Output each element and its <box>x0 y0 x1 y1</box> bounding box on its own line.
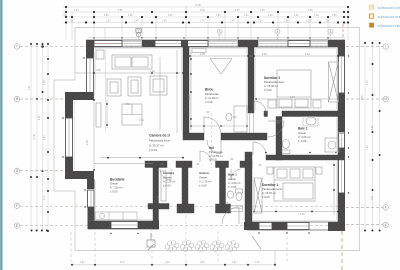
svg-text:2.10: 2.10 <box>44 195 46 200</box>
radiator birou <box>192 49 206 53</box>
svg-text:10.40: 10.40 <box>34 134 36 140</box>
svg-text:1.20: 1.20 <box>150 70 155 73</box>
svg-text:1.10: 1.10 <box>306 21 311 23</box>
label dormitor2 <box>264 76 285 92</box>
wall top outline <box>86 40 345 47</box>
baie1 sink <box>227 191 233 198</box>
svg-text:E: E <box>16 224 18 228</box>
armchairs living <box>107 79 121 96</box>
baie2 shower <box>325 138 339 152</box>
pier <box>238 40 258 47</box>
svg-text:± 0.00: ± 0.00 <box>205 100 213 104</box>
svg-text:3.40: 3.40 <box>29 85 31 90</box>
exterior wall: bottom band <box>88 221 345 231</box>
living room vertical line <box>105 50 107 133</box>
svg-text:1.45: 1.45 <box>134 21 139 23</box>
door birou <box>204 117 221 133</box>
svg-text:3: 3 <box>219 30 221 34</box>
door dormitor1 <box>253 142 266 155</box>
right dimension chains <box>365 42 380 231</box>
interior walls <box>145 47 344 229</box>
window bottom W7 <box>111 222 138 229</box>
svg-text:2.20: 2.20 <box>86 140 89 145</box>
svg-text:Baie 2: Baie 2 <box>298 127 308 131</box>
svg-text:F: F <box>16 204 18 208</box>
svg-text:Gresie: Gresie <box>163 175 171 179</box>
bottom dashed grid verticals <box>71 210 287 262</box>
svg-text:4.05: 4.05 <box>308 10 313 12</box>
birou left dim line <box>190 52 192 130</box>
door dormitor2 <box>254 101 266 113</box>
svg-text:2.70: 2.70 <box>255 262 260 264</box>
svg-text:2.80: 2.80 <box>262 53 267 56</box>
svg-text:± 0.00: ± 0.00 <box>209 158 217 162</box>
svg-text:2: 2 <box>138 30 140 34</box>
label camara <box>163 171 176 187</box>
svg-text:1.05: 1.05 <box>128 15 133 17</box>
svg-text:Pardoseala: Pardoseala <box>209 150 223 154</box>
window left W6 <box>88 190 95 207</box>
svg-text:A: 10.55 m²: A: 10.55 m² <box>209 154 223 158</box>
svg-text:SUPRAFATA TERASE: SUPRAFATA TERASE <box>378 24 400 28</box>
exterior wall: top band <box>86 37 345 47</box>
svg-text:Gresie: Gresie <box>298 131 306 135</box>
upper left pier <box>86 40 94 58</box>
door antreu/hall <box>200 151 211 162</box>
wall camara/antreu vertical <box>182 167 188 204</box>
svg-text:Camara: Camara <box>163 171 174 175</box>
svg-text:± 0.00: ± 0.00 <box>163 183 171 187</box>
svg-text:3.85: 3.85 <box>118 10 123 12</box>
door kitchen <box>160 169 171 180</box>
wall hall bottom horizontal left segment <box>183 133 204 140</box>
bushes at bottom <box>165 241 239 252</box>
svg-text:1.05: 1.05 <box>332 15 337 17</box>
secondary glazing segments <box>123 41 328 46</box>
hall top dim row <box>191 125 247 127</box>
wall birou/dormitor2 vertical <box>248 47 254 113</box>
window top W2 <box>155 41 208 47</box>
svg-text:E: E <box>385 223 387 227</box>
left axis bubbles with dashed leaders <box>20 47 345 226</box>
baie2 toilet <box>282 150 290 154</box>
svg-text:3.10: 3.10 <box>188 95 191 100</box>
svg-text:1.35: 1.35 <box>284 21 289 23</box>
svg-text:F: F <box>385 206 387 210</box>
mullion / interior wall joint <box>181 40 188 47</box>
left jut top wall <box>65 92 94 100</box>
svg-text:Bucatarie: Bucatarie <box>110 177 125 181</box>
svg-text:Baie 1: Baie 1 <box>228 173 237 177</box>
coffee table living <box>122 104 142 125</box>
svg-text:A: 7.50 m²: A: 7.50 m² <box>110 186 123 190</box>
wardrobe dormitor1 <box>254 178 262 213</box>
svg-text:1.45: 1.45 <box>230 21 235 23</box>
TV cabinet left wall <box>96 103 101 127</box>
wall baie1/dormitor1 vertical <box>245 152 252 225</box>
svg-text:4.20: 4.20 <box>290 96 295 99</box>
svg-text:1.20: 1.20 <box>305 53 310 56</box>
wall baie2 left vertical <box>276 117 282 161</box>
svg-text:1.50: 1.50 <box>125 103 130 106</box>
eave / roof overhang outline <box>54 28 360 266</box>
svg-text:± 0.00: ± 0.00 <box>264 88 272 92</box>
window left W5 <box>66 118 73 157</box>
svg-text:Pardoseala lemn: Pardoseala lemn <box>149 139 170 143</box>
wall hall-left vertical <box>183 47 189 134</box>
svg-text:3.40: 3.40 <box>44 135 46 140</box>
pier top-left corner <box>86 40 94 47</box>
label baie2 <box>298 127 311 143</box>
svg-text:I: I <box>385 45 386 49</box>
svg-text:± 0.00: ± 0.00 <box>199 183 207 187</box>
legend row 2 <box>370 14 374 18</box>
baie1 porch window <box>231 206 243 212</box>
svg-text:4.90: 4.90 <box>39 115 41 120</box>
camara shelves <box>161 171 166 201</box>
svg-text:A: 4.06 m²: A: 4.06 m² <box>298 135 311 139</box>
hall dashed axis <box>211 113 213 168</box>
svg-text:± 0.00: ± 0.00 <box>262 195 270 199</box>
entry door arc <box>222 207 239 224</box>
hall south wall cap over kitchen wall <box>145 161 167 168</box>
baie2 sink <box>303 117 318 127</box>
svg-text:A: 35.37 m²: A: 35.37 m² <box>149 143 164 147</box>
window right W11 <box>339 157 345 193</box>
window left W4 <box>87 58 94 93</box>
window right W10 <box>339 133 345 148</box>
svg-text:1.20: 1.20 <box>74 10 79 12</box>
svg-text:A: 2.25 m²: A: 2.25 m² <box>163 179 176 183</box>
window jamb tick dots <box>62 55 349 234</box>
svg-text:4.45: 4.45 <box>372 125 374 130</box>
svg-text:1.90: 1.90 <box>106 21 111 23</box>
top chain numbers <box>63 5 337 23</box>
right axis bubbles <box>346 47 383 225</box>
svg-text:1.60: 1.60 <box>268 15 273 17</box>
door camera de zi (hall wall) <box>207 140 221 154</box>
exterior wall: left side <box>65 40 95 229</box>
pier <box>142 40 155 47</box>
pier top-right corner <box>328 40 345 47</box>
svg-text:± 0.00: ± 0.00 <box>110 190 118 194</box>
wardrobe dormitor2 <box>329 62 339 102</box>
label birou <box>205 88 219 104</box>
label dormitor1 <box>262 183 283 199</box>
svg-text:Gresie: Gresie <box>199 175 207 179</box>
svg-text:± -0.05: ± -0.05 <box>298 139 307 143</box>
bed dormitor2 <box>277 70 311 108</box>
svg-text:1.10: 1.10 <box>139 119 144 122</box>
label bucatarie <box>110 177 125 193</box>
wall antreu/baie1 vertical <box>220 167 226 204</box>
nightstands dormitor2 <box>268 100 276 108</box>
svg-text:5.70: 5.70 <box>120 262 125 264</box>
svg-text:1.10: 1.10 <box>244 15 249 17</box>
svg-text:Pardoseala lemn: Pardoseala lemn <box>262 187 283 191</box>
left jut bottom wall <box>65 171 94 179</box>
svg-text:1.70: 1.70 <box>200 21 205 23</box>
interior dimension lines <box>75 50 338 215</box>
svg-text:3.10: 3.10 <box>367 80 369 85</box>
hall south wall cap 4 <box>240 161 252 168</box>
svg-text:1.65: 1.65 <box>260 10 265 12</box>
svg-text:A: 15.70 m²: A: 15.70 m² <box>262 191 276 195</box>
door baie1 <box>231 169 241 180</box>
legend top right <box>370 5 400 28</box>
glazed partition birou/dormitor2 <box>250 113 254 133</box>
top chain witness lines <box>72 6 328 40</box>
legend row 1 <box>370 5 374 9</box>
hall south wall cap 2 <box>176 161 192 168</box>
label hol <box>209 146 223 162</box>
svg-text:1.55: 1.55 <box>235 10 240 12</box>
exterior wall: right side <box>338 41 345 231</box>
label camera de zi <box>149 134 170 153</box>
kitchen counter <box>95 212 137 220</box>
legend row 3 <box>370 23 374 27</box>
svg-text:1.00: 1.00 <box>314 15 319 17</box>
door openings / arcs <box>160 101 284 249</box>
svg-text:Birou: Birou <box>205 88 213 92</box>
svg-text:3.40: 3.40 <box>165 262 170 264</box>
svg-text:Gresie: Gresie <box>228 177 236 181</box>
svg-text:2.05: 2.05 <box>200 53 205 56</box>
svg-text:5: 5 <box>330 30 332 34</box>
hall south wall cap 3 <box>216 161 229 168</box>
svg-text:Pardoseala lemn: Pardoseala lemn <box>264 80 285 84</box>
wall baie2/dormitor1 horizontal <box>266 155 344 160</box>
svg-text:A: 2.75 m²: A: 2.75 m² <box>199 179 212 183</box>
svg-text:3.90: 3.90 <box>200 262 205 264</box>
svg-text:2.15: 2.15 <box>300 213 305 216</box>
svg-text:1.55: 1.55 <box>104 15 109 17</box>
svg-text:2.30: 2.30 <box>80 262 85 264</box>
blue page edge strip <box>0 0 1 270</box>
wall hall bottom horizontal right segment <box>221 133 267 140</box>
sofa top living <box>112 55 152 69</box>
svg-text:3.00: 3.00 <box>168 15 173 17</box>
witness line top-left eave <box>104 28 106 40</box>
extra micro annotations <box>86 53 310 216</box>
svg-text:2.30: 2.30 <box>232 262 237 264</box>
window top W3 <box>288 41 310 47</box>
svg-text:1.10: 1.10 <box>258 21 263 23</box>
window bottom W8 <box>287 223 309 230</box>
svg-text:1.20: 1.20 <box>294 15 299 17</box>
wall dormitor2/baie2 horizontal <box>264 111 268 117</box>
interior plaster face lines <box>75 49 337 221</box>
bottom dimension line <box>72 264 275 266</box>
desk birou <box>234 106 247 132</box>
tick dots above top wall <box>93 37 328 38</box>
label baie1 <box>228 173 241 189</box>
svg-text:3.55: 3.55 <box>96 69 101 72</box>
svg-text:± -0.05: ± -0.05 <box>228 185 237 189</box>
svg-text:Dormitor 2: Dormitor 2 <box>264 76 280 80</box>
svg-text:I: I <box>17 45 18 49</box>
chimney symbol on top wall <box>136 29 142 37</box>
axis dashed vertical olive bottom right <box>341 231 343 270</box>
svg-text:1.80: 1.80 <box>216 15 221 17</box>
bed dormitor1 <box>274 167 315 201</box>
downspout symbol <box>147 233 155 250</box>
left dimension chains <box>31 42 48 231</box>
svg-text:4: 4 <box>277 30 279 34</box>
svg-text:Antreu: Antreu <box>199 171 209 175</box>
axis dashed vertical (red-brown) at x343 top <box>342 24 344 40</box>
window right W9 <box>339 56 345 93</box>
top chain dots <box>65 6 349 24</box>
svg-text:3.50: 3.50 <box>372 195 374 200</box>
svg-text:Dormitor 1: Dormitor 1 <box>262 183 278 187</box>
door baie2 <box>268 121 284 137</box>
svg-text:4.10: 4.10 <box>200 10 205 12</box>
top dimension chains <box>63 5 350 40</box>
svg-text:Gresie: Gresie <box>110 182 118 186</box>
label antreu <box>199 171 212 187</box>
svg-text:1.80: 1.80 <box>162 21 167 23</box>
window top W1 <box>94 41 122 47</box>
svg-text:1.30: 1.30 <box>367 145 369 150</box>
svg-text:Pardoseala: Pardoseala <box>205 92 219 96</box>
svg-text:Camera de zi: Camera de zi <box>149 134 170 138</box>
svg-text:A: 3.90 m²: A: 3.90 m² <box>228 181 241 185</box>
svg-text:± 0.00: ± 0.00 <box>149 148 157 152</box>
wall kitchen/camara vertical <box>153 167 159 229</box>
svg-text:A: 15.48 m²: A: 15.48 m² <box>264 84 278 88</box>
nightstands dormitor1 <box>267 167 273 174</box>
svg-text:A: 11.02 m²: A: 11.02 m² <box>205 96 219 100</box>
svg-text:1.55: 1.55 <box>44 80 46 85</box>
svg-text:14.50: 14.50 <box>195 5 201 7</box>
baie1 toilet <box>236 189 243 193</box>
svg-text:SUPRAFATA UTILA: SUPRAFATA UTILA <box>378 15 400 19</box>
wardrobe X birou <box>210 59 232 75</box>
svg-text:SUPRAFATA CONSTRUITA: SUPRAFATA CONSTRUITA <box>378 6 400 10</box>
top axis bubbles <box>136 29 333 34</box>
